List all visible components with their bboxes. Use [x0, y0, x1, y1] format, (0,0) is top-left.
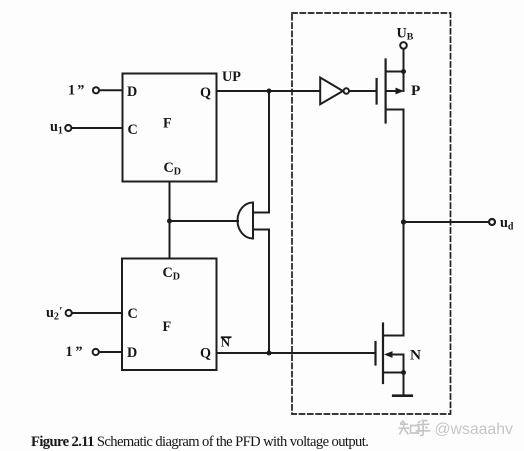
terminal u2' [66, 310, 72, 316]
flip-flop F (bottom) box [122, 259, 217, 371]
wire C input top FF [72, 127, 123, 129]
wire P bulk stub with arrow [386, 90, 398, 92]
wire inverter output to P gate [349, 90, 376, 92]
wire N: Q of bottom FF to N gate [217, 352, 376, 354]
svg-text:P: P [411, 82, 420, 99]
svg-text:Q: Q [200, 346, 211, 362]
svg-text:CD: CD [163, 265, 180, 283]
junction N source node [401, 370, 406, 375]
svg-text:u2′: u2′ [46, 304, 63, 323]
svg-text:D: D [127, 84, 137, 100]
svg-text:@wsaaahv: @wsaaahv [435, 421, 513, 438]
terminal ud [489, 219, 495, 225]
wire D input top FF [99, 89, 122, 91]
wire N bulk stub with arrow [391, 354, 404, 356]
wire N source to ground [403, 373, 405, 395]
terminal u1 [65, 125, 71, 131]
wire AND gate bottom input stub [253, 229, 269, 231]
inverter U2 [320, 78, 343, 105]
svg-text:C: C [128, 306, 138, 322]
wire UP vertical to AND gate top input [268, 91, 270, 213]
svg-text:1”: 1” [66, 344, 83, 360]
wire AND gate output to CD line [170, 220, 239, 222]
wire UB to P source [403, 49, 405, 91]
junction N node [267, 351, 272, 356]
wire output node to ud terminal [404, 221, 490, 223]
wire N drain stub [383, 335, 404, 337]
wire CD vertical between flip-flops [169, 182, 171, 259]
svg-text:F: F [163, 319, 172, 335]
svg-text:u1: u1 [50, 119, 63, 137]
transistor N (NMOS) [376, 324, 384, 384]
watermark zhihu [399, 421, 513, 439]
svg-text:UP: UP [222, 69, 241, 85]
svg-text:N: N [410, 347, 421, 364]
wire P source stub [386, 71, 404, 73]
wire N bulk to source [403, 355, 405, 373]
junction output node [401, 219, 406, 224]
svg-text:F: F [163, 116, 172, 132]
terminal UB [400, 42, 407, 49]
wire D input bottom FF [99, 351, 122, 353]
flip-flop F (top) box [123, 74, 217, 182]
svg-text:ud: ud [500, 215, 514, 233]
svg-text:C: C [128, 122, 138, 138]
svg-text:UB: UB [397, 26, 414, 43]
AND gate U3 (mirrored, inputs right) [238, 203, 254, 239]
wire P drain stub [386, 109, 404, 111]
ground [393, 394, 412, 397]
wire DN vertical from AND gate bottom input to N wire [268, 230, 270, 354]
svg-text:CD: CD [164, 160, 181, 178]
dashed box (charge pump boundary) [292, 13, 451, 414]
wire AND gate top input stub [253, 212, 269, 214]
wire P drain to output node to N drain [403, 110, 405, 336]
svg-text:Figure 2.11 Schematic diagram: Figure 2.11 Schematic diagram of the PFD… [31, 434, 368, 450]
junction CD reset node [167, 219, 172, 224]
junction UP node [267, 89, 272, 94]
transistor P (PMOS) [377, 60, 386, 123]
svg-text:1”: 1” [68, 83, 84, 99]
svg-text:D: D [127, 345, 137, 361]
svg-text:Q: Q [200, 85, 211, 101]
wire C input bottom FF [72, 312, 122, 314]
wire N source stub [383, 372, 404, 374]
terminal 1" (bottom) [93, 349, 99, 355]
terminal 1" (top) [93, 87, 99, 93]
junction P source node [401, 69, 406, 74]
wire UP: Q of top FF to inverter input [217, 90, 321, 92]
